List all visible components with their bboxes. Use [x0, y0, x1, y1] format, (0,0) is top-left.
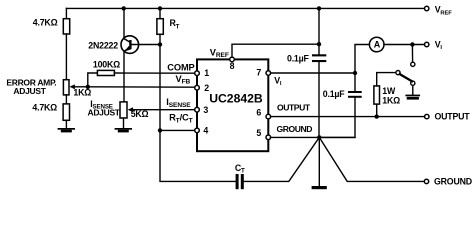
pin 6 circle [266, 114, 271, 119]
wire Q1 base to RT node [132, 44, 161, 46]
wire VREF top rail [66, 7, 424, 9]
ground GND3 [405, 95, 420, 100]
svg-text:1KΩ: 1KΩ [382, 96, 400, 106]
wire RT node down to RT/CT node [159, 45, 161, 131]
resistor R7 1W 1K [374, 86, 380, 104]
terminal OUTPUT [425, 114, 429, 118]
wire VREF drop to C1 [318, 8, 320, 54]
wire C1 to ground node [318, 62, 320, 137]
svg-text:OUTPUT: OUTPUT [435, 112, 471, 122]
ground GND2 [115, 128, 132, 132]
ammeter M1 [369, 37, 384, 52]
resistor R3 4.7K bottom [63, 104, 69, 120]
pin 8 circle [230, 57, 235, 62]
svg-text:2N2222: 2N2222 [88, 40, 118, 50]
pin 3 circle [195, 107, 200, 112]
node base-RT junction [158, 42, 162, 46]
node rail-C1 junction [317, 6, 321, 10]
wire VI node down to switch [411, 45, 413, 63]
transistor Q1 2N2222 [121, 36, 139, 54]
node VI terminal junction [410, 42, 414, 46]
wire apex diagonal right to GROUND terminal [319, 137, 424, 181]
node pin8-VREF junction [317, 42, 321, 46]
wire RT bottom to base node [159, 34, 161, 44]
svg-text:4.7KΩ: 4.7KΩ [33, 18, 58, 28]
wiper arrow R6 [132, 109, 194, 111]
pin 5 circle [266, 135, 271, 140]
wire apex down to GND4 [318, 137, 320, 186]
svg-text:0.1µF: 0.1µF [323, 89, 345, 99]
wire wiper node up to 100K left [88, 73, 98, 87]
svg-text:ADJUST: ADJUST [88, 108, 121, 118]
wire left branch upper [65, 8, 67, 19]
svg-text:4: 4 [203, 126, 208, 136]
svg-text:7: 7 [256, 68, 261, 78]
wire RT/CT node down to CT [160, 130, 236, 181]
node rail-collector junction [122, 6, 126, 10]
terminal GROUND [424, 179, 428, 183]
pin 2 circle [195, 85, 200, 90]
svg-text:OUTPUT: OUTPUT [277, 103, 311, 113]
node wiper junction [86, 85, 90, 89]
wiper arrow R2 [74, 86, 88, 88]
wire R3 to ground [65, 120, 67, 128]
pin 7 circle [266, 71, 271, 76]
svg-text:6: 6 [256, 108, 261, 118]
potentiometer R2 1K [63, 80, 69, 95]
svg-text:0.1µF: 0.1µF [287, 54, 309, 64]
ground GND1 [58, 128, 75, 132]
wire RT/CT to pin 4 [160, 129, 195, 131]
capacitor C1 0.1uF [312, 54, 326, 62]
node ground apex junction [317, 135, 321, 139]
wire Q1 emitter down to R6 [123, 51, 125, 102]
node RT/CT junction [158, 128, 162, 132]
node rail-RT junction [158, 6, 162, 10]
svg-text:5: 5 [256, 128, 261, 138]
wire R7 top to switch [377, 73, 396, 86]
wire R2 to R3 [65, 95, 67, 104]
wire apex diagonal left to CT [244, 137, 319, 181]
resistor R1 4.7K top [63, 19, 69, 34]
capacitor C2 0.1uF [348, 91, 362, 98]
svg-text:3: 3 [203, 105, 208, 115]
svg-text:A: A [374, 40, 381, 50]
node VI branch junction [353, 71, 357, 75]
wire VI node up to ammeter [355, 45, 369, 74]
terminal VI [425, 42, 429, 46]
svg-text:2: 2 [204, 83, 209, 93]
svg-text:1W: 1W [382, 86, 396, 96]
wire R6 to ground [123, 118, 125, 128]
svg-text:5KΩ: 5KΩ [131, 109, 149, 119]
svg-text:4.7KΩ: 4.7KΩ [32, 102, 57, 112]
wire RT top [159, 8, 161, 19]
wire VI node down to C2 [354, 73, 356, 91]
wire pin 8 to VREF node [232, 44, 319, 57]
pin 4 circle [195, 128, 200, 133]
svg-text:1KΩ: 1KΩ [73, 88, 91, 98]
op-amp U1 UC2842B box [197, 59, 268, 151]
resistor R4 100K [97, 70, 114, 75]
svg-text:8: 8 [230, 61, 235, 71]
svg-text:1: 1 [204, 68, 209, 78]
ground GND4 [312, 186, 327, 189]
potentiometer R6 5K [120, 102, 127, 118]
svg-text:UC2842B: UC2842B [209, 92, 263, 106]
wire 100K right to COMP pin 1 [114, 72, 194, 74]
capacitor C3 CT [236, 174, 244, 189]
wire pin 6 to OUTPUT terminal [271, 116, 425, 118]
wire Q1 collector [123, 8, 125, 38]
wire wiper to VFB pin 2 [88, 86, 195, 88]
wire R1 to pot R2 [65, 34, 67, 80]
svg-text:100KΩ: 100KΩ [93, 60, 120, 70]
switch S1 [396, 62, 415, 85]
svg-text:GROUND: GROUND [277, 124, 313, 134]
svg-text:COMP: COMP [167, 62, 194, 72]
wire pin 7 to VI branch [271, 72, 355, 74]
svg-text:ADJUST: ADJUST [13, 86, 46, 96]
terminal VREF [425, 6, 429, 10]
wire switch to GND3 [412, 85, 414, 94]
pin 1 circle [195, 71, 200, 76]
node OUTPUT load junction [375, 114, 379, 118]
svg-text:GROUND: GROUND [434, 176, 472, 186]
wire C2 down to ground wire [321, 98, 355, 138]
wire 1W resistor to OUTPUT [376, 104, 378, 117]
wire pin 5 ground net [271, 136, 355, 138]
wire ammeter to VI terminal [384, 44, 425, 46]
resistor R5 RT [157, 19, 163, 35]
